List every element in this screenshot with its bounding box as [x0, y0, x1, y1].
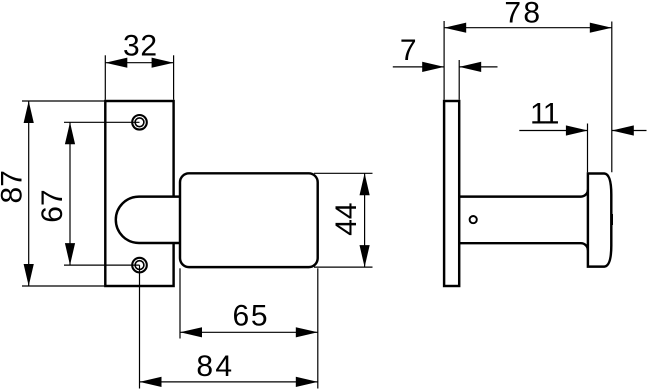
screw hole top [132, 115, 147, 130]
svg-text:32: 32 [123, 30, 157, 63]
stem top edge with fillet [459, 190, 588, 197]
dimension 78 (overall depth) [444, 21, 612, 172]
dimension 67 (hole spacing) [69, 122, 71, 265]
dimension 32 (plate width) [105, 55, 173, 100]
mounting plate (front) [105, 101, 173, 286]
svg-text:87: 87 [0, 170, 29, 203]
knob cap (side) [588, 174, 611, 267]
svg-text:7: 7 [400, 34, 417, 67]
wall plate (side) [444, 101, 459, 286]
svg-text:11: 11 [530, 98, 560, 131]
stem hole [470, 216, 477, 223]
dimension 87 (plate height) [22, 101, 104, 286]
stem bottom edge with fillet [459, 243, 588, 250]
svg-text:44: 44 [330, 203, 363, 236]
dimension 65 (knob length) [180, 268, 318, 388]
knob (front, rounded rectangle) [180, 173, 318, 267]
handle neck (front) [116, 197, 180, 243]
dimension 11 (cap thickness) [519, 124, 646, 173]
screw hole bottom [132, 258, 147, 273]
dimension 44 (knob height) [314, 173, 373, 267]
dimension 84 (overall projection) [140, 381, 318, 383]
extension line from bottom hole down (dim 84 left) [139, 265, 141, 388]
extension line from top hole (dim 67 top) [64, 121, 140, 123]
svg-text:65: 65 [233, 300, 268, 333]
svg-text:67: 67 [36, 189, 69, 222]
dimension 7 (wall plate thickness) [393, 60, 498, 100]
knob cap front-face step (side) [611, 214, 613, 225]
extension line from bottom hole (dim 67 bottom) [64, 264, 140, 266]
